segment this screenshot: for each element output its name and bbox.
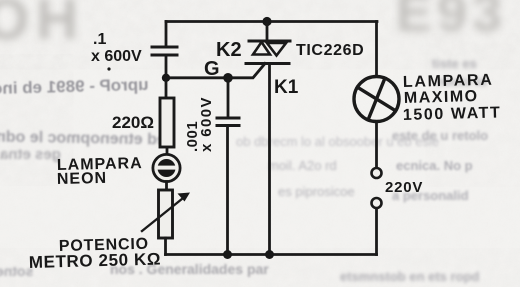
svg-text:1500 WATT: 1500 WATT [403,104,502,124]
wire: neon to potentiometer [165,182,168,191]
triac upward triangle [253,42,270,55]
svg-text:x 600V: x 600V [198,96,215,152]
wire: C2 bottom lead [226,126,229,255]
lamp L1 1500W [354,77,399,122]
ink speck [107,67,110,70]
wire: bottom rail [166,253,377,256]
svg-text:K1: K1 [274,77,299,98]
triac bottom bar [246,62,289,65]
node: bottom junction C2 [223,250,232,259]
node: bottom junction K1 [265,250,274,259]
wire: left drop from top rail [165,22,168,47]
wire: right rail top [375,22,378,77]
svg-text:G: G [204,58,220,80]
wire: lamp to upper terminal [375,122,378,168]
svg-text:MAXIMO: MAXIMO [404,88,479,107]
resistor R1 220 ohm [160,98,174,147]
wire: lead node to resistor [165,78,168,98]
wire: lower terminal to bottom rail [375,209,378,255]
triac downward triangle [267,43,286,56]
svg-text:x 600V: x 600V [91,48,142,65]
capacitor C2 (.001 x 600V) [217,118,239,126]
wire: gate lead to triac [228,64,265,78]
terminal: lower 220V [372,198,382,208]
wire: triac top lead [266,22,269,42]
wire: C2 top lead [227,78,230,117]
svg-text:K2: K2 [216,39,242,61]
svg-text:220V: 220V [385,179,423,196]
neon lamp NE1 [153,154,180,181]
node: top junction to triac [262,17,271,26]
bleed-through background text [0,0,85,53]
wire: resistor to neon [166,148,169,155]
terminal: upper 220V [372,168,382,178]
wire: triac main terminal K1 down [268,64,271,255]
svg-text:TIC226D: TIC226D [296,42,364,59]
capacitor C1 (.1 x 600V) [152,47,177,55]
svg-text:NEON: NEON [57,170,108,188]
svg-text:.1: .1 [93,31,106,48]
potentiometer P1 250k [142,190,190,238]
svg-text:METRO 250 KΩ: METRO 250 KΩ [29,250,162,272]
wire: top horizontal rail [166,20,377,23]
node: left node at gate row [162,74,170,82]
potentiometer arrow [142,197,185,232]
svg-text:220Ω: 220Ω [112,113,154,132]
wire: C1 bottom lead [165,56,168,78]
wire: gate row horizontal [166,76,228,79]
wire: pot bottom lead [164,238,167,255]
triac top bar [249,40,290,43]
node G junction [223,73,233,83]
triac U1 TIC226D [246,41,290,64]
